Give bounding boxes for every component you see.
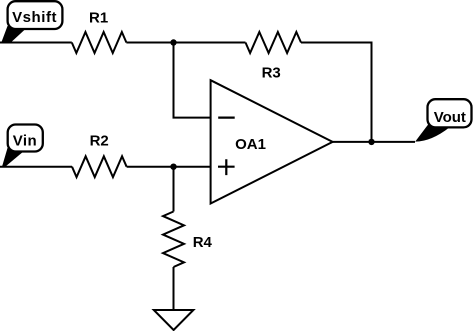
svg-text:R2: R2 bbox=[90, 132, 109, 149]
svg-text:OA1: OA1 bbox=[235, 136, 266, 153]
svg-text:R3: R3 bbox=[262, 64, 281, 81]
wire R1 to node A bbox=[126, 42, 173, 44]
node B junction dot bbox=[170, 164, 176, 170]
svg-text:R4: R4 bbox=[193, 234, 213, 251]
Vshift flag tail bbox=[1, 26, 28, 43]
op-amp plus sign bbox=[218, 159, 235, 175]
node A junction dot bbox=[170, 39, 176, 45]
wire op-amp output bbox=[333, 141, 415, 143]
svg-text:Vin: Vin bbox=[13, 132, 37, 149]
op-amp OA1 bbox=[211, 80, 333, 203]
wire Vin to R2 bbox=[0, 166, 72, 168]
resistor R1 bbox=[72, 32, 127, 53]
Vout flag balloon bbox=[428, 99, 472, 127]
Vin flag tail bbox=[2, 148, 25, 167]
svg-text:R1: R1 bbox=[89, 9, 108, 26]
output node junction dot bbox=[368, 139, 374, 145]
ground bbox=[154, 310, 194, 330]
wire Vshift to R1 bbox=[0, 42, 72, 44]
resistor R4 bbox=[163, 212, 184, 268]
svg-text:Vout: Vout bbox=[434, 109, 466, 126]
wire R3 to output node bbox=[301, 43, 372, 142]
wire R4 to ground bbox=[173, 267, 175, 310]
wire node B down to R4 bbox=[173, 167, 175, 212]
resistor R3 bbox=[246, 32, 302, 53]
Vin flag balloon bbox=[8, 125, 43, 152]
resistor R2 bbox=[72, 156, 127, 177]
op-amp minus sign bbox=[218, 116, 235, 118]
Vout flag tail bbox=[415, 124, 450, 142]
wire node A to R3 bbox=[174, 42, 246, 44]
Vshift flag balloon bbox=[8, 1, 63, 29]
wire node A down to inverting input bbox=[174, 43, 211, 118]
svg-text:Vshift: Vshift bbox=[12, 9, 57, 26]
wire R2 to node B bbox=[127, 166, 174, 168]
wire node B to non-inverting input bbox=[174, 166, 211, 168]
